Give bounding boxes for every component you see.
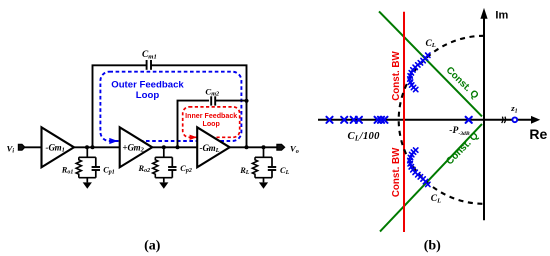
node stage1 Cm1 tap [91,145,95,149]
resistor RL and capacitor CL network [252,147,276,177]
svg-text:Loop: Loop [203,120,221,128]
inner feedback loop box [183,107,240,137]
axis break [502,117,506,123]
capacitor Cm1 [146,60,148,70]
svg-text:Im: Im [495,10,508,22]
svg-text:Outer Feedback: Outer Feedback [111,80,184,91]
resistor Ro2 [153,157,158,177]
const BW line [403,12,405,232]
node stage1 RC tap [85,145,89,149]
resistor Ro1 and capacitor Cp1 network [76,147,100,177]
poles on real axis [326,117,387,123]
resistor Ro1 [76,157,81,177]
const Q line lower [380,124,482,232]
ground stage2 [159,178,168,189]
capacitor Cp1 [95,157,97,167]
capacitor Cm2 [210,96,212,105]
amplifier GmL [197,127,230,167]
resistor RL [252,157,257,177]
complex pole locus lower [408,148,430,187]
capacitor CL [271,157,273,167]
node output RC tap [262,145,266,149]
wire Cm1 top branch [93,65,147,147]
svg-text:CL/100: CL/100 [348,131,381,142]
svg-text:Inner Feedback: Inner Feedback [185,112,237,120]
zero z1 [512,117,517,122]
wire stage2 output [152,146,197,148]
svg-text:Const. BW: Const. BW [391,147,402,197]
const Q line upper [379,11,482,116]
svg-text:Re: Re [529,126,547,142]
wire Cm2 branch [178,101,210,148]
dashed circle CL locus [399,36,484,204]
wire input [25,146,42,148]
svg-text:(b): (b) [424,239,441,254]
pole P-3dB marker [466,117,472,123]
complex pole locus upper [408,53,430,92]
node output Cm1 tap [245,145,249,149]
output pad [277,144,285,150]
outer loop arrow [109,138,118,144]
node Cm2 junction [244,99,248,103]
input pad [18,144,25,150]
node stage2 Cm2 tap [176,145,180,149]
wire stage3 output [230,146,277,148]
amplifier Gm2 [120,127,153,167]
node stage2 RC tap [162,145,166,149]
svg-text:Loop: Loop [136,90,160,101]
axis Re [318,116,540,124]
svg-text:(a): (a) [144,239,161,254]
resistor Ro2 and capacitor Cp2 network [153,147,177,177]
ground stage1 [83,178,92,189]
amplifier Gm1 [42,127,75,167]
svg-text:Const. BW: Const. BW [391,50,402,100]
inner loop arrow [190,135,197,140]
wire stage1 output [74,146,120,148]
axis Im [480,8,487,220]
capacitor Cp2 [171,157,173,167]
ground stage3 [259,178,268,189]
outer feedback loop box [100,72,241,141]
